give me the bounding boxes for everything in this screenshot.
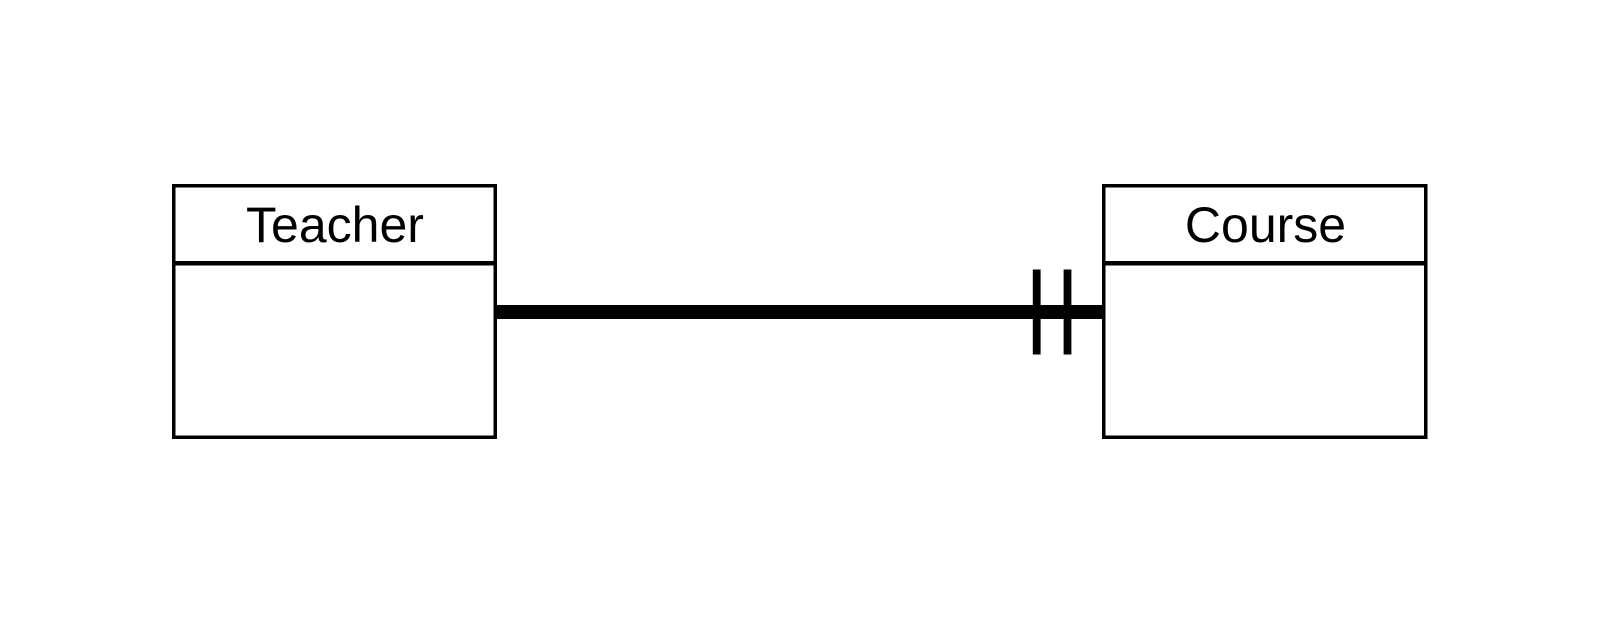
- entity Course: outer box: [1104, 186, 1426, 438]
- wire: relationship line Teacher-Course: [497, 305, 1102, 319]
- entity Teacher: header separator: [172, 261, 497, 266]
- entity Course: header separator: [1102, 261, 1428, 266]
- cardinality tick 1 (one): [1033, 270, 1041, 355]
- entity Teacher: outer box: [174, 186, 496, 438]
- cardinality tick 2 (and only one): [1064, 270, 1072, 355]
- svg-text:Teacher: Teacher: [246, 197, 424, 253]
- svg-text:Course: Course: [1185, 197, 1346, 253]
